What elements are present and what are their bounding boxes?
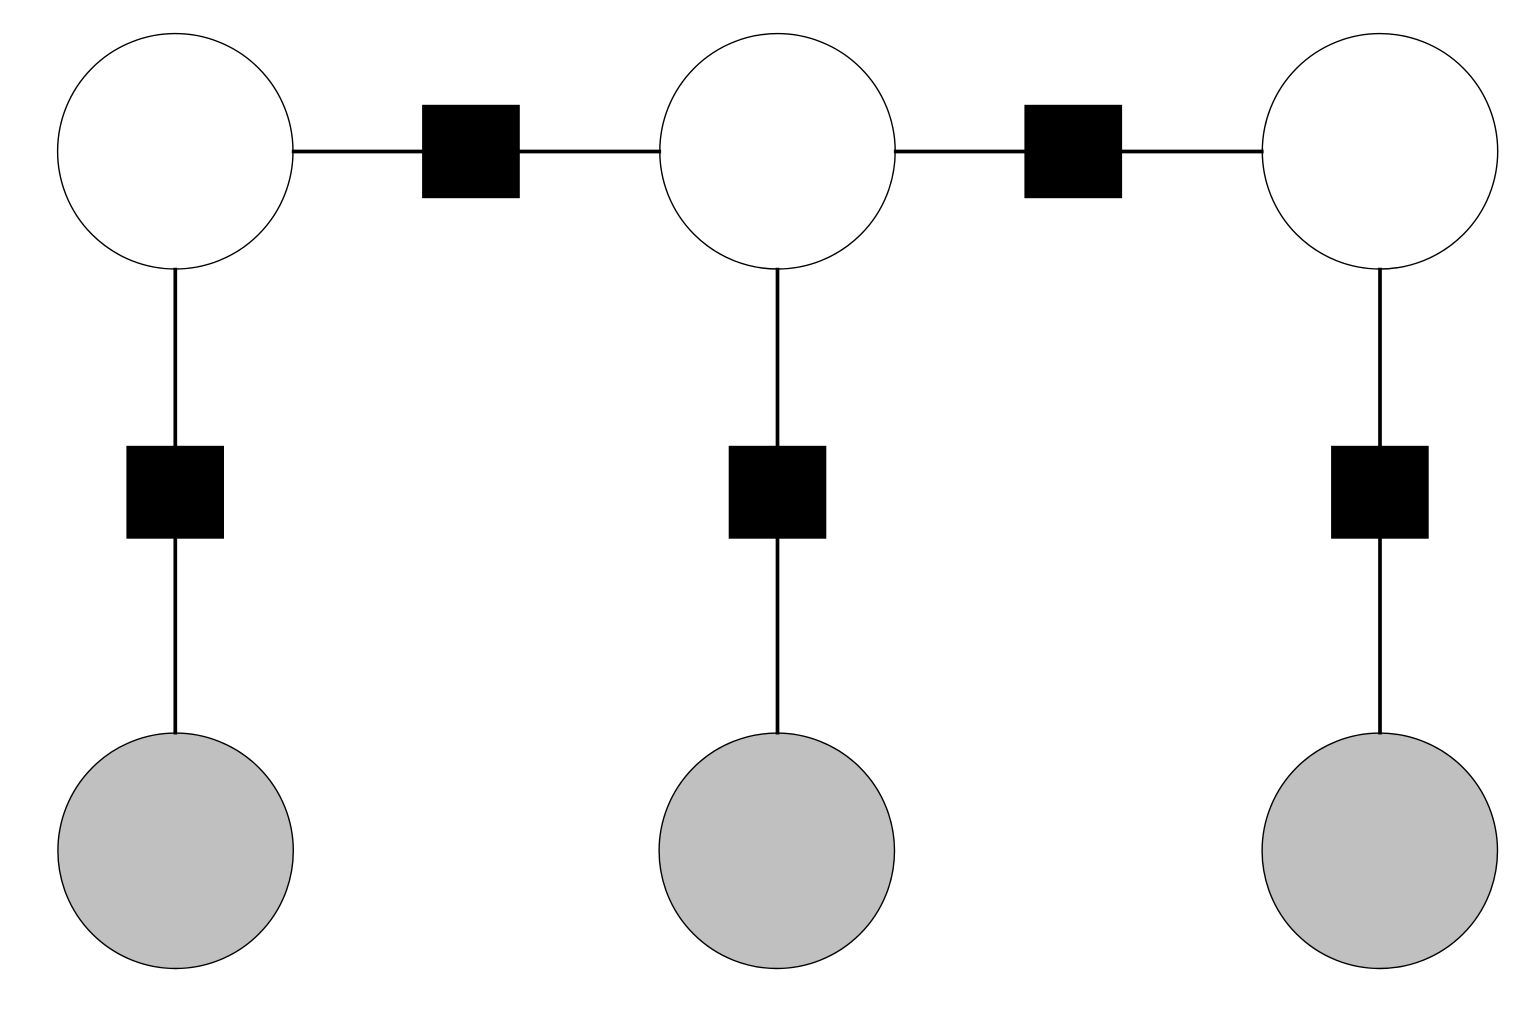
wire g1 to Y1 [173,537,177,735]
wire f23 to X3 [1119,150,1264,154]
factor f23 (black square between X2 and X3) [1024,105,1122,198]
wire g3 to Y3 [1378,537,1382,735]
factor g2 (black square below X2) [729,446,827,539]
variable node X1 (white circle, top left) [58,34,293,269]
observed node Y1 (gray circle, bottom left) [58,733,293,968]
factor g1 (black square below X1) [126,446,224,539]
factor g3 (black square below X3) [1331,446,1429,539]
factor f12 (black square between X1 and X2) [422,105,520,198]
observed node Y2 (gray circle, bottom middle) [659,733,894,968]
wire g2 to Y2 [776,537,780,735]
wire X3 to g3 [1378,268,1382,448]
wire X2 to g2 [776,268,780,448]
wire f12 to X2 [517,150,661,154]
variable node X2 (white circle, top middle) [660,34,895,269]
variable node X3 (white circle, top right) [1262,34,1497,269]
wire X1 to f12 [292,150,425,154]
wire X2 to f23 [894,150,1027,154]
wire X1 to g1 [173,268,177,448]
observed node Y3 (gray circle, bottom right) [1262,733,1497,968]
